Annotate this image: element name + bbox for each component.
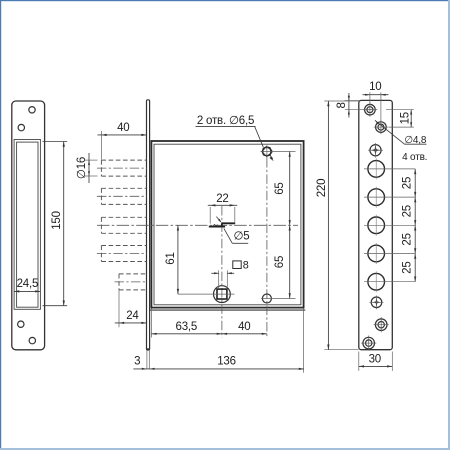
svg-text:25: 25 [402, 261, 414, 273]
svg-text:3: 3 [134, 356, 140, 368]
svg-text:8: 8 [336, 102, 348, 108]
svg-text:40: 40 [238, 321, 250, 333]
svg-text:65: 65 [274, 256, 286, 268]
svg-text:∅4,8: ∅4,8 [404, 135, 426, 146]
svg-text:∅16: ∅16 [76, 157, 88, 179]
svg-text:10: 10 [369, 81, 381, 93]
svg-text:25: 25 [402, 205, 414, 217]
svg-text:136: 136 [217, 356, 236, 368]
svg-text:8: 8 [243, 260, 249, 272]
svg-text:63,5: 63,5 [176, 321, 198, 333]
svg-text:22: 22 [216, 193, 228, 205]
svg-text:220: 220 [316, 179, 328, 198]
svg-text:2 отв. ∅6,5: 2 отв. ∅6,5 [197, 115, 254, 127]
svg-text:24,5: 24,5 [17, 278, 39, 290]
svg-text:15: 15 [399, 112, 411, 124]
svg-text:30: 30 [369, 353, 381, 365]
svg-text:25: 25 [402, 177, 414, 189]
svg-text:4 отв.: 4 отв. [402, 152, 427, 163]
svg-text:∅5: ∅5 [233, 231, 249, 243]
svg-text:150: 150 [51, 211, 63, 230]
svg-text:61: 61 [165, 252, 177, 264]
svg-text:25: 25 [402, 233, 414, 245]
svg-text:24: 24 [126, 310, 139, 322]
svg-text:40: 40 [117, 122, 129, 134]
svg-text:65: 65 [274, 182, 286, 194]
